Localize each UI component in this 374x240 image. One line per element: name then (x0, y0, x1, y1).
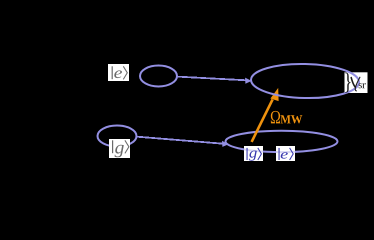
gamma_sr label box (345, 72, 368, 93)
label |g> bottom-left (109, 139, 130, 158)
label box |g> in lower manifold (244, 146, 263, 161)
gamma_sr text (345, 73, 366, 93)
MW coupling arrow (252, 99, 273, 141)
label Omega_MW (271, 111, 303, 124)
label box |e> in lower manifold (276, 146, 295, 161)
MW arrowhead (270, 88, 278, 101)
label |e> top-left (108, 64, 129, 81)
wire from |g> ellipse to lower manifold (136, 137, 223, 144)
label text |g> in lower manifold (247, 148, 262, 161)
lower manifold ellipse (226, 131, 338, 152)
node |e> small ellipse top-left (140, 66, 177, 87)
arrowhead wire2 (222, 141, 229, 147)
arrowhead wire1 (245, 78, 252, 84)
label text |e> in lower manifold (279, 148, 294, 160)
wire from |e> ellipse to upper manifold (177, 77, 247, 81)
node |g> small ellipse bottom-left (98, 126, 137, 147)
upper manifold ellipse (251, 63, 360, 99)
faint arc showing through label boxes (226, 131, 338, 152)
